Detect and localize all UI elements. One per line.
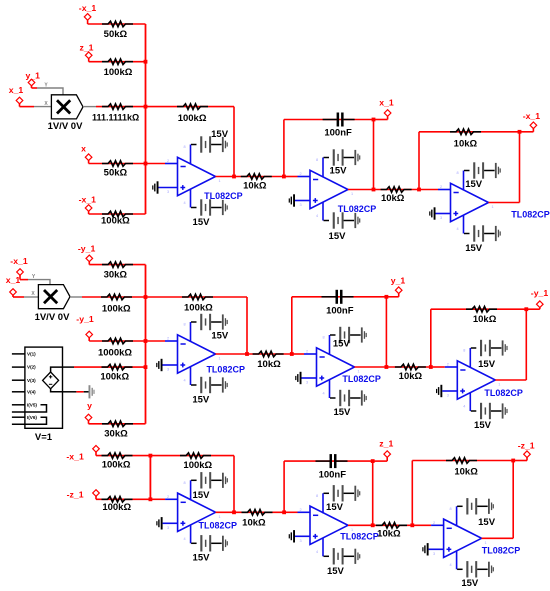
op-amp A2 TL082CP xyxy=(167,322,245,385)
op-amp A1 TL082CP xyxy=(167,145,243,208)
junction xyxy=(144,162,148,166)
svg-text:8: 8 xyxy=(183,323,185,327)
capacitor 100nF (B2) xyxy=(322,290,354,317)
svg-text:I(V5): I(V5) xyxy=(27,402,37,407)
svg-text:x_1: x_1 xyxy=(9,85,24,95)
resistor 100kΩ xyxy=(101,211,133,227)
wire xyxy=(513,460,527,462)
junction xyxy=(149,497,153,501)
wire xyxy=(95,496,97,500)
terminal x_1 xyxy=(9,85,24,104)
wire xyxy=(19,103,21,107)
svg-text:15V: 15V xyxy=(193,552,211,563)
wire xyxy=(445,366,458,368)
junction xyxy=(149,454,153,458)
wire C3 output xyxy=(482,537,514,539)
wire xyxy=(386,366,430,368)
resistor 100kΩ feedback A1 xyxy=(177,104,208,124)
svg-text:50kΩ: 50kΩ xyxy=(104,29,128,40)
svg-text:1V/V 0V: 1V/V 0V xyxy=(35,312,71,323)
wire xyxy=(82,296,146,298)
battery V+ 15V (A2) xyxy=(191,314,229,342)
svg-text:15V: 15V xyxy=(193,490,211,501)
wire cap feedback left xyxy=(283,461,285,512)
wire xyxy=(429,548,444,550)
op-amp A3 TL082CP xyxy=(167,480,237,543)
svg-text:15V: 15V xyxy=(461,578,479,589)
wire xyxy=(19,275,21,280)
svg-text:4: 4 xyxy=(183,201,185,205)
wire xyxy=(374,119,388,121)
svg-text:10kΩ: 10kΩ xyxy=(454,139,478,150)
junction xyxy=(385,295,389,299)
resistor 100kΩ xyxy=(100,364,132,382)
svg-text:4: 4 xyxy=(450,563,452,567)
wire feedback vertical xyxy=(246,297,248,354)
svg-text:4: 4 xyxy=(316,550,318,554)
svg-text:3: 3 xyxy=(306,381,308,385)
wire xyxy=(302,377,317,379)
svg-text:100kΩ: 100kΩ xyxy=(178,113,207,124)
resistor 100kΩ xyxy=(101,294,132,314)
wire multiplier output (gray) xyxy=(70,296,82,298)
op-amp C3 TL082CP xyxy=(433,506,520,569)
battery V+ 15V (B2) xyxy=(330,327,367,350)
wire xyxy=(20,106,35,108)
terminal z_1 xyxy=(79,42,93,58)
svg-text:V(1): V(1) xyxy=(27,352,36,357)
svg-text:100nF: 100nF xyxy=(319,470,347,481)
battery V+ 15V (C3) xyxy=(457,498,496,528)
wire to B3 minus xyxy=(284,511,297,513)
svg-text:15V: 15V xyxy=(330,166,348,177)
resistor 100kΩ feedback A2 xyxy=(182,294,213,313)
terminal -x_1 xyxy=(66,446,99,462)
terminal -y_1 xyxy=(78,244,96,262)
svg-text:2: 2 xyxy=(167,495,169,499)
wire cap feedback left xyxy=(283,120,285,177)
ground at C1 + input xyxy=(429,207,435,219)
resistor 50kΩ xyxy=(102,21,133,40)
junction xyxy=(282,510,286,514)
svg-text:-x_1: -x_1 xyxy=(10,256,28,266)
svg-text:3: 3 xyxy=(447,394,449,398)
wire to C3 minus xyxy=(412,524,431,526)
wire xyxy=(32,87,38,89)
junction xyxy=(144,339,148,343)
wire xyxy=(63,366,75,368)
svg-text:2: 2 xyxy=(299,172,301,176)
svg-text:15V: 15V xyxy=(329,231,347,242)
svg-text:8: 8 xyxy=(322,336,324,340)
svg-text:15V: 15V xyxy=(474,420,492,431)
wire net sum3 (bus) xyxy=(149,456,151,500)
svg-text:15V: 15V xyxy=(465,243,483,254)
svg-text:10kΩ: 10kΩ xyxy=(257,359,281,370)
wire C2 feedback left xyxy=(430,309,432,367)
svg-text:30kΩ: 30kΩ xyxy=(104,429,128,440)
svg-text:-x_1: -x_1 xyxy=(79,3,97,13)
wire xyxy=(146,296,248,298)
svg-text:8: 8 xyxy=(450,507,452,511)
battery V+ 15V (B1) xyxy=(324,149,361,176)
svg-text:1: 1 xyxy=(351,192,353,196)
resistor 10kΩ xyxy=(395,364,426,382)
svg-text:V=1: V=1 xyxy=(35,432,53,443)
svg-text:3: 3 xyxy=(299,203,301,207)
resistor 100kΩ xyxy=(102,59,133,78)
wire xyxy=(96,455,150,457)
wire xyxy=(298,176,311,178)
wire xyxy=(74,366,146,368)
wire xyxy=(298,511,311,513)
wire to C2 minus xyxy=(431,366,445,368)
svg-text:I(V6): I(V6) xyxy=(27,415,37,420)
svg-text:-x_1: -x_1 xyxy=(523,111,541,121)
wire C1 feedback top xyxy=(419,131,520,133)
svg-text:2: 2 xyxy=(433,521,435,525)
svg-text:1: 1 xyxy=(218,179,220,183)
svg-text:2: 2 xyxy=(167,159,169,163)
wire xyxy=(163,364,178,366)
svg-text:100kΩ: 100kΩ xyxy=(104,67,133,78)
svg-text:y: y xyxy=(87,401,92,411)
wire xyxy=(373,524,413,526)
terminal x_1 output xyxy=(379,98,394,117)
junction xyxy=(429,365,433,369)
junction xyxy=(232,510,236,514)
capacitor 100nF (B3) xyxy=(316,454,348,481)
resistor 100kΩ xyxy=(102,453,133,471)
svg-text:4: 4 xyxy=(322,392,324,396)
terminal -z_1 xyxy=(67,489,100,499)
battery V- 15V (C2) xyxy=(471,403,508,431)
wire xyxy=(84,391,89,393)
ground at A2 + input xyxy=(156,359,162,371)
svg-text:10kΩ: 10kΩ xyxy=(243,180,267,191)
svg-text:8: 8 xyxy=(316,494,318,498)
ground at B2 + input xyxy=(295,372,301,384)
junction xyxy=(371,459,375,463)
wire cap feedback right xyxy=(373,120,375,190)
wire xyxy=(526,308,540,310)
svg-text:100kΩ: 100kΩ xyxy=(183,460,212,471)
svg-text:4: 4 xyxy=(456,227,458,231)
wire xyxy=(373,460,388,462)
svg-text:8: 8 xyxy=(463,349,465,353)
svg-text:TL082CP: TL082CP xyxy=(484,388,523,398)
junction xyxy=(144,365,148,369)
wire xyxy=(96,498,150,500)
wire xyxy=(96,106,146,108)
junction xyxy=(282,175,286,179)
svg-text:15V: 15V xyxy=(211,331,229,342)
battery V- 15V (B3) xyxy=(324,548,361,577)
svg-text:10kΩ: 10kΩ xyxy=(242,517,266,528)
svg-text:1: 1 xyxy=(357,370,359,374)
battery V- 15V (C1) xyxy=(464,225,501,254)
svg-text:8: 8 xyxy=(316,158,318,162)
wire xyxy=(146,106,235,108)
svg-text:15V: 15V xyxy=(333,407,351,418)
wire xyxy=(295,200,310,202)
resistor 100kΩ feedback A3 xyxy=(180,453,213,471)
svg-text:x_1: x_1 xyxy=(6,275,21,285)
wire plus pin xyxy=(159,187,178,189)
wire xyxy=(165,340,178,342)
wire minus pin (blue) xyxy=(165,163,178,165)
svg-text:TL082CP: TL082CP xyxy=(340,531,379,541)
ground at B3 + input xyxy=(289,530,295,542)
wire xyxy=(88,261,90,265)
wire A3 output xyxy=(216,511,234,513)
svg-text:8: 8 xyxy=(183,145,185,149)
junction xyxy=(372,118,376,122)
svg-text:-y_1: -y_1 xyxy=(76,314,94,324)
svg-text:15V: 15V xyxy=(211,129,229,140)
wire xyxy=(436,213,451,215)
wire xyxy=(150,455,234,457)
ground at A3 + input xyxy=(156,517,162,529)
svg-text:4: 4 xyxy=(316,214,318,218)
terminal -x_1 xyxy=(79,195,97,212)
wire C3 feedback left xyxy=(411,461,413,526)
wire xyxy=(88,420,90,424)
battery V+ 15V (C1) xyxy=(464,162,501,190)
svg-text:111.1111kΩ: 111.1111kΩ xyxy=(92,112,139,122)
terminal y_1 output xyxy=(391,275,406,293)
terminal -y_1 xyxy=(76,314,94,338)
svg-text:30kΩ: 30kΩ xyxy=(104,270,128,281)
resistor 10kΩ feedback C2 xyxy=(466,306,497,325)
svg-text:-x_1: -x_1 xyxy=(79,195,97,205)
battery V- 15V (A3) xyxy=(191,535,228,563)
wire C1 feedback left xyxy=(418,132,420,190)
wire xyxy=(386,296,398,298)
svg-text:3: 3 xyxy=(440,216,442,220)
svg-text:15V: 15V xyxy=(333,338,351,349)
wire xyxy=(442,390,457,392)
wire xyxy=(89,213,146,215)
svg-text:10kΩ: 10kΩ xyxy=(454,467,478,478)
source block V=1 xyxy=(12,347,63,443)
wire xyxy=(88,160,90,164)
svg-text:100kΩ: 100kΩ xyxy=(102,460,131,471)
resistor 10kΩ xyxy=(376,523,407,540)
svg-text:TL082CP: TL082CP xyxy=(342,374,381,384)
svg-text:z_1: z_1 xyxy=(379,439,393,449)
resistor 30kΩ xyxy=(102,262,133,281)
wire xyxy=(539,307,541,309)
wire C3 feedback right xyxy=(512,461,514,539)
svg-text:10kΩ: 10kΩ xyxy=(377,529,401,540)
ground at C2 + input xyxy=(436,385,442,397)
battery V- 15V (B2) xyxy=(330,390,367,418)
junction xyxy=(518,130,522,134)
multiplier A1 (x_1*y_1) 1V/V 0V xyxy=(48,95,84,132)
wire C2 feedback right xyxy=(525,309,527,380)
svg-text:15V: 15V xyxy=(193,217,211,228)
svg-text:100nF: 100nF xyxy=(324,127,352,138)
wire xyxy=(234,176,284,178)
op-amp C2 TL082CP xyxy=(447,348,523,411)
wire B3 output xyxy=(348,524,373,526)
wire B1 output xyxy=(348,189,374,191)
svg-text:TL082CP: TL082CP xyxy=(199,520,238,530)
resistor 10kΩ xyxy=(253,351,284,370)
wire xyxy=(295,535,310,537)
wire X input (gray) xyxy=(24,296,38,298)
svg-text:TL082CP: TL082CP xyxy=(206,364,245,374)
wire to A2 minus xyxy=(146,340,166,342)
wire net sum1 (bus) xyxy=(145,24,147,214)
svg-text:100kΩ: 100kΩ xyxy=(102,502,131,513)
wire xyxy=(31,85,33,88)
wire to op-amp minus xyxy=(146,163,166,165)
wire to C1 minus xyxy=(419,189,438,191)
svg-text:100kΩ: 100kΩ xyxy=(100,372,129,383)
svg-text:8: 8 xyxy=(184,481,186,485)
capacitor 100nF (B1) xyxy=(323,113,355,139)
wire net sum2 (bus) xyxy=(145,265,147,424)
junction xyxy=(232,175,236,179)
svg-text:V(2): V(2) xyxy=(27,365,36,370)
wire to B2 minus xyxy=(292,353,304,355)
resistor 100kΩ xyxy=(102,497,133,514)
svg-text:15V: 15V xyxy=(478,517,496,528)
svg-text:1000kΩ: 1000kΩ xyxy=(98,347,132,358)
svg-text:1: 1 xyxy=(218,357,220,361)
wire xyxy=(431,524,444,526)
svg-text:3: 3 xyxy=(299,539,301,543)
wire xyxy=(63,391,77,393)
wire xyxy=(386,457,388,461)
wire cap feedback top xyxy=(284,460,373,462)
svg-text:y_1: y_1 xyxy=(391,275,406,285)
junction xyxy=(371,523,375,527)
terminal -x_1 xyxy=(79,3,97,20)
wire xyxy=(398,293,400,296)
svg-text:2: 2 xyxy=(167,337,169,341)
battery V+ 15V (B3) xyxy=(324,485,361,513)
wire cap feedback right xyxy=(372,461,374,525)
svg-text:-x_1: -x_1 xyxy=(66,452,84,462)
junction xyxy=(290,352,294,356)
wire xyxy=(89,264,145,266)
svg-text:4: 4 xyxy=(183,379,185,383)
svg-text:1: 1 xyxy=(491,205,493,209)
svg-text:1: 1 xyxy=(219,515,221,519)
wire xyxy=(438,189,451,191)
wire xyxy=(89,61,146,63)
terminal x xyxy=(81,143,92,160)
resistor 10kΩ feedback C1 xyxy=(450,129,481,150)
wire xyxy=(89,340,145,342)
junction xyxy=(410,523,414,527)
wire C1 output xyxy=(489,202,520,204)
svg-text:V(3): V(3) xyxy=(27,378,36,383)
wire xyxy=(520,131,534,133)
svg-text:50kΩ: 50kΩ xyxy=(104,167,128,178)
resistor 10kΩ feedback C3 xyxy=(446,458,478,478)
battery V+ 15V (A3) xyxy=(191,472,228,501)
wire feedback vertical xyxy=(233,107,235,177)
wire xyxy=(163,522,178,524)
ground at V block xyxy=(89,385,95,398)
op-amp C1 TL082CP xyxy=(440,171,550,234)
wire xyxy=(304,353,317,355)
svg-text:3: 3 xyxy=(167,368,169,372)
wire Y input (gray) xyxy=(37,88,63,95)
wire xyxy=(532,129,534,132)
svg-text:3: 3 xyxy=(433,552,435,556)
wire to A3 minus xyxy=(150,498,165,500)
wire feedback vertical xyxy=(233,456,235,513)
battery V+ 15V (A1) xyxy=(191,129,229,153)
resistor 30kΩ xyxy=(102,421,133,440)
wire xyxy=(89,163,146,165)
svg-text:15V: 15V xyxy=(465,179,483,190)
wire A1 output xyxy=(216,176,235,178)
svg-text:-z_1: -z_1 xyxy=(518,441,535,451)
resistor 111.1111kΩ xyxy=(102,104,133,110)
wire C1 feedback right xyxy=(519,132,521,203)
svg-text:3: 3 xyxy=(167,526,169,530)
svg-text:z_1: z_1 xyxy=(79,42,93,52)
wire C3 feedback top xyxy=(412,460,513,462)
svg-text:15V: 15V xyxy=(478,359,496,370)
wire C2 output xyxy=(495,379,526,381)
svg-text:2: 2 xyxy=(440,185,442,189)
wire multiplier output (gray) xyxy=(83,106,96,108)
junction xyxy=(372,188,376,192)
wire C2 feedback top xyxy=(431,308,527,310)
wire xyxy=(247,353,292,355)
svg-text:3: 3 xyxy=(167,190,169,194)
svg-text:10kΩ: 10kΩ xyxy=(399,371,423,382)
svg-text:4: 4 xyxy=(463,405,465,409)
resistor 1000kΩ xyxy=(98,338,133,358)
wire cap feedback right xyxy=(385,297,387,367)
svg-text:10kΩ: 10kΩ xyxy=(473,314,497,325)
junction xyxy=(511,459,515,463)
wire xyxy=(374,189,420,191)
battery V+ 15V (C2) xyxy=(471,340,508,370)
op-amp B2 TL082CP xyxy=(306,335,381,398)
terminal x_1 xyxy=(6,275,21,296)
wire xyxy=(12,295,14,297)
svg-text:4: 4 xyxy=(184,537,186,541)
junction xyxy=(524,307,528,311)
wire xyxy=(76,391,83,393)
resistor 10kΩ xyxy=(241,174,272,192)
wire xyxy=(234,511,284,513)
svg-text:-y_1: -y_1 xyxy=(78,244,96,254)
junction xyxy=(245,352,249,356)
wire xyxy=(88,58,90,62)
wire xyxy=(526,457,528,460)
svg-text:100kΩ: 100kΩ xyxy=(101,216,130,227)
ground at B1 + input xyxy=(289,194,295,206)
wire xyxy=(95,451,97,455)
terminal -z_1 output xyxy=(518,441,535,458)
ground at C3 + input xyxy=(422,543,428,555)
svg-text:-z_1: -z_1 xyxy=(67,489,84,499)
battery V- 15V (A2) xyxy=(191,377,228,406)
wire xyxy=(89,423,146,425)
wire xyxy=(387,116,389,119)
svg-text:2: 2 xyxy=(306,350,308,354)
